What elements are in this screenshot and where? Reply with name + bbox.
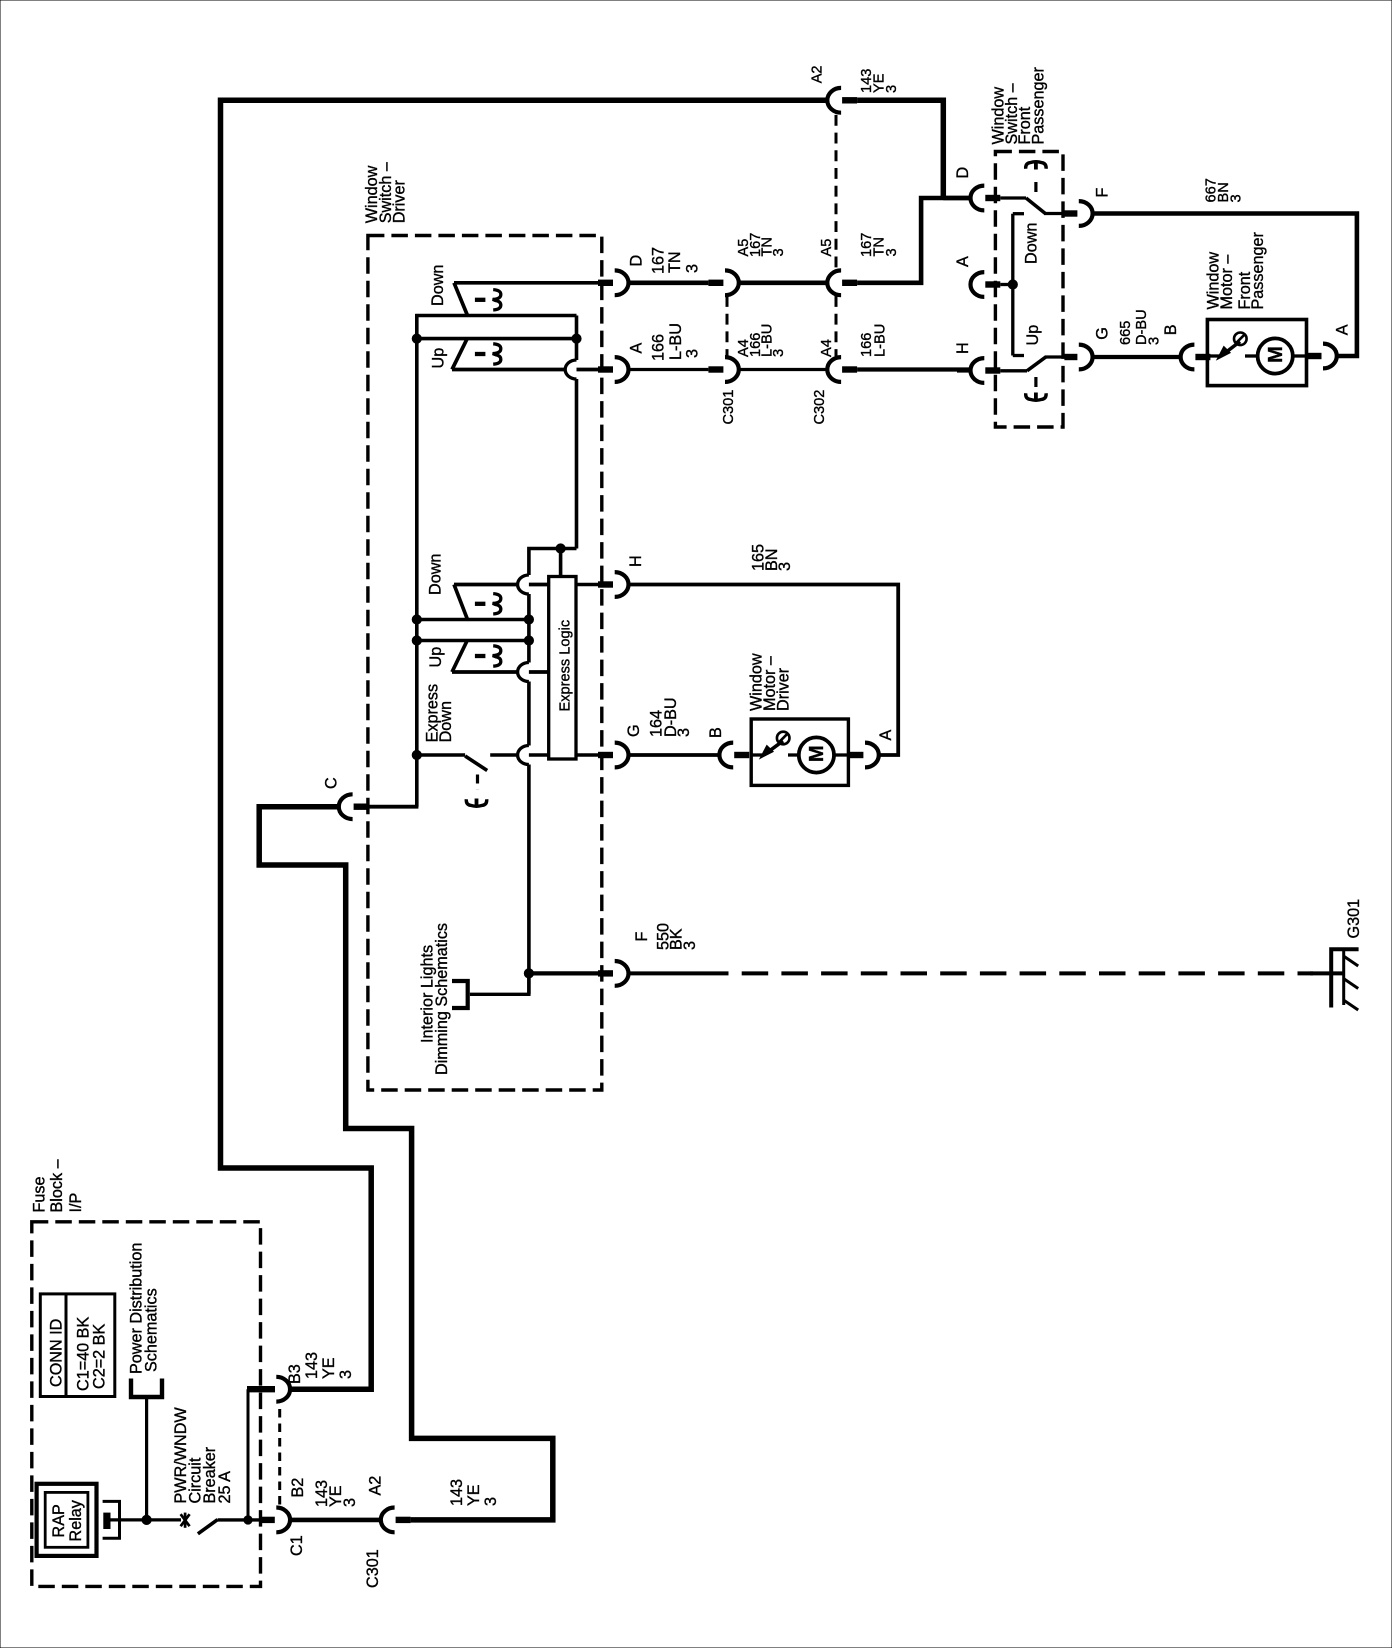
- svg-text:3: 3: [675, 728, 693, 737]
- junction dot B3 drop: [244, 1516, 252, 1524]
- connector H passenger: [970, 358, 984, 383]
- connector C302 pin A2 top: [827, 88, 841, 113]
- svg-text:Relay: Relay: [67, 1499, 85, 1541]
- svg-text:Driver: Driver: [775, 667, 793, 711]
- junction dot F branch: [524, 969, 533, 978]
- svg-text:Passenger: Passenger: [1249, 232, 1267, 310]
- connector C301 pin A5: [708, 280, 723, 286]
- svg-text:3: 3: [681, 941, 699, 950]
- driver paddle hook 2: [493, 344, 501, 364]
- svg-text:3: 3: [1229, 194, 1245, 202]
- window switch front passenger dashed box: [995, 152, 1063, 428]
- wire hop to A connector: [577, 368, 599, 372]
- wire 166 L-BU C301 to C302: [739, 368, 828, 371]
- svg-text:3: 3: [771, 349, 787, 357]
- express down blade: [465, 756, 487, 771]
- wire 550 BK dashed to ground: [702, 971, 1313, 975]
- svg-text:RAP: RAP: [50, 1504, 68, 1537]
- connector C1 pin B2 stub: [260, 1517, 275, 1523]
- svg-text:Up: Up: [430, 348, 448, 369]
- power distribution bracket: [131, 1379, 162, 1398]
- svg-text:G: G: [1094, 327, 1112, 340]
- svg-text:3: 3: [884, 248, 900, 256]
- connector C301 C302 dashed links: [726, 296, 729, 356]
- svg-text:A: A: [877, 730, 895, 741]
- svg-text:143: 143: [448, 1479, 466, 1506]
- wire express down feed: [417, 753, 465, 757]
- svg-text:A: A: [954, 256, 972, 267]
- express logic top pin: [559, 549, 563, 577]
- svg-text:YE: YE: [320, 1357, 338, 1379]
- svg-text:M: M: [1265, 346, 1287, 363]
- motor passenger wire mid: [1245, 354, 1258, 357]
- right rail upper: [575, 339, 579, 360]
- svg-text:H: H: [954, 342, 972, 354]
- wire 167 TN C302 to D wire: [857, 198, 970, 283]
- svg-text:Up: Up: [1024, 325, 1042, 346]
- passenger link bottom hook: [1026, 393, 1046, 400]
- passenger H blade: [1000, 369, 1027, 372]
- svg-text:A2: A2: [367, 1476, 385, 1496]
- junction dots common: [524, 615, 533, 624]
- junction dot express down: [412, 750, 421, 759]
- svg-text:B: B: [1162, 324, 1180, 335]
- svg-text:Passenger: Passenger: [1030, 67, 1048, 145]
- svg-text:143: 143: [303, 1352, 321, 1379]
- motor driver wire mid: [788, 753, 799, 756]
- svg-text:A2: A2: [810, 65, 826, 83]
- wire D feed: [943, 196, 970, 200]
- svg-text:B: B: [707, 727, 725, 738]
- connector A passenger: [970, 272, 984, 297]
- passenger link dash top: [1034, 182, 1037, 192]
- common rail seg2: [527, 594, 531, 663]
- wire 166 L-BU C302 to H: [857, 367, 970, 371]
- junction dots 338: [412, 334, 421, 343]
- svg-text:Driver: Driver: [391, 180, 409, 224]
- svg-text:25 A: 25 A: [216, 1471, 234, 1504]
- svg-text:B3: B3: [286, 1364, 304, 1384]
- svg-text:Fuse: Fuse: [31, 1177, 49, 1213]
- driver down switch paddle: [454, 281, 599, 285]
- svg-text:Schematics: Schematics: [143, 1288, 161, 1372]
- connector F driver: [598, 970, 613, 976]
- window motor front passenger box: [1207, 320, 1306, 386]
- connector B passenger motor: [1181, 345, 1195, 370]
- express logic box: [549, 577, 576, 760]
- svg-text:C1: C1: [288, 1535, 306, 1556]
- junction dot A passenger: [1008, 280, 1017, 289]
- passenger link top hook: [1026, 162, 1046, 169]
- wire 665 D-BU G to motor B: [1093, 355, 1181, 359]
- connector C302 pin A4: [827, 357, 841, 382]
- svg-text:3: 3: [684, 349, 702, 358]
- svg-text:3: 3: [776, 562, 794, 571]
- passenger A contact bar: [1000, 283, 1013, 286]
- driver paddle link dash 2: [475, 352, 486, 356]
- svg-text:A5: A5: [819, 239, 835, 257]
- svg-text:M: M: [806, 745, 828, 762]
- svg-text:F: F: [1094, 188, 1112, 198]
- motor passenger thermal circle: [1234, 333, 1247, 346]
- wire breaker to C1 B2: [218, 1518, 261, 1521]
- svg-text:G301: G301: [1345, 899, 1363, 939]
- svg-text:3: 3: [337, 1370, 355, 1379]
- wire right rail to common: [529, 549, 577, 576]
- svg-text:665: 665: [1118, 321, 1134, 345]
- connector F passenger: [1064, 210, 1077, 216]
- connector G passenger: [1064, 354, 1077, 360]
- connector B driver motor: [719, 743, 733, 768]
- connector C driver switch: [339, 794, 353, 819]
- motor passenger wire right: [1293, 354, 1307, 357]
- svg-text:F: F: [633, 932, 651, 942]
- wire 667 BN F to motor A: [1093, 214, 1357, 357]
- driver paddle hook 4: [493, 646, 501, 666]
- connector G driver: [598, 752, 613, 758]
- driver switch left rail: [415, 314, 419, 807]
- passenger D blade: [1000, 196, 1026, 199]
- svg-text:D: D: [628, 255, 646, 267]
- driver up2 paddle: [452, 641, 467, 673]
- wire up2 top: [417, 639, 529, 643]
- interior dimming bracket: [452, 981, 468, 1008]
- express logic G pin: [576, 753, 599, 757]
- svg-text:Down: Down: [427, 554, 445, 595]
- wire down2 bottom: [417, 618, 529, 622]
- svg-text:Down: Down: [437, 701, 455, 742]
- svg-text:Express Logic: Express Logic: [558, 620, 574, 712]
- motor passenger blade: [1207, 354, 1220, 357]
- svg-text:L-BU: L-BU: [667, 323, 685, 360]
- connector D driver stub: [598, 280, 613, 286]
- svg-text:C: C: [323, 777, 341, 789]
- driver up switch paddle: [452, 339, 467, 370]
- wire 164 D-BU G to motor B: [629, 753, 720, 757]
- wire 143 YE B3 to top left corner: [221, 100, 828, 1389]
- svg-text:3: 3: [771, 248, 787, 256]
- wire up paddle output: [452, 368, 565, 372]
- wire bracket to relay wire: [145, 1397, 148, 1520]
- connector C1 pin B3 stub: [247, 1386, 275, 1392]
- wire B3 to B2 internal: [247, 1389, 250, 1520]
- svg-text:3: 3: [341, 1498, 359, 1507]
- hop common over down2: [518, 575, 529, 594]
- wire 143 YE A2 to passenger D: [857, 100, 943, 198]
- svg-text:Dimming Schematics: Dimming Schematics: [433, 923, 451, 1075]
- hop common over up2: [518, 663, 529, 682]
- relay pin bracket: [103, 1501, 120, 1538]
- svg-text:G: G: [625, 724, 643, 737]
- motor driver thermal circle: [777, 732, 790, 745]
- express down link dash: [476, 775, 479, 790]
- svg-text:C301: C301: [364, 1549, 382, 1588]
- circuit breaker asterisk: [181, 1514, 190, 1526]
- CONN ID table: [40, 1294, 115, 1397]
- svg-text:167: 167: [650, 247, 668, 274]
- motor driver M circle: [799, 737, 834, 772]
- driver paddle hook 1: [493, 290, 501, 310]
- svg-text:TN: TN: [666, 251, 684, 273]
- driver down2 paddle: [454, 583, 518, 587]
- wire 167 TN C301 to C302: [739, 280, 828, 285]
- express logic H pin: [576, 583, 599, 587]
- hop over right rail: [565, 360, 576, 379]
- junction dot down2 left: [412, 615, 421, 624]
- svg-text:H: H: [627, 555, 645, 567]
- motor driver blade: [751, 753, 763, 756]
- driver paddle link dash 4: [475, 654, 486, 658]
- wire 143 YE B2 to C301 A2: [290, 1518, 381, 1523]
- motor driver wire right: [834, 753, 848, 756]
- window switch driver dashed box: [368, 236, 602, 1091]
- svg-text:A: A: [628, 343, 646, 354]
- svg-text:Down: Down: [429, 265, 447, 306]
- fuse block I/P dashed box: [32, 1222, 261, 1587]
- connector H driver: [598, 581, 613, 587]
- svg-text:YE: YE: [465, 1484, 483, 1506]
- junction dot express top: [556, 544, 565, 553]
- relay RAP box: [37, 1484, 97, 1556]
- driver paddle link dash 1: [475, 298, 486, 302]
- wire down paddle bottom: [415, 314, 576, 318]
- wire 165 BN H to motor A: [629, 585, 899, 756]
- connector A passenger motor: [1307, 353, 1322, 359]
- svg-text:3: 3: [884, 85, 900, 93]
- junction dot up2 left: [412, 636, 421, 645]
- svg-text:B2: B2: [289, 1478, 307, 1498]
- express down hook: [466, 799, 486, 806]
- connector C301 pin A4: [708, 366, 723, 372]
- svg-text:L-BU: L-BU: [873, 324, 889, 357]
- wire 143 YE staircase to C: [259, 807, 553, 1520]
- wire F 550 BK: [529, 971, 599, 975]
- wire express down out: [490, 753, 518, 757]
- wire 167 TN D to C301: [629, 280, 709, 285]
- common rail seg4: [527, 765, 531, 995]
- svg-text:Down: Down: [1023, 223, 1041, 264]
- hop common over expressdown: [518, 746, 529, 765]
- right rail lower: [575, 379, 579, 549]
- connector C1 dashed link: [278, 1409, 281, 1507]
- common rail seg3: [527, 682, 531, 746]
- motor passenger M circle: [1258, 338, 1293, 373]
- ground G301 symbol: [1331, 949, 1358, 1007]
- wire common to dimming bracket: [470, 973, 529, 994]
- window motor driver box: [751, 719, 848, 785]
- svg-text:A4: A4: [819, 339, 835, 357]
- circuit breaker blade: [198, 1520, 218, 1534]
- driver paddle link dash 3: [475, 602, 486, 606]
- connector C302 pin A5: [827, 270, 841, 295]
- svg-text:C2=2 BK: C2=2 BK: [90, 1324, 108, 1389]
- connector C301 pin A2 bottom: [381, 1508, 395, 1533]
- svg-text:I/P: I/P: [67, 1193, 85, 1213]
- wire 166 L-BU A to C301: [629, 368, 709, 371]
- svg-text:166: 166: [650, 334, 668, 361]
- svg-text:3: 3: [684, 264, 702, 273]
- wire relay to breaker: [110, 1518, 181, 1521]
- svg-text:D: D: [954, 167, 972, 179]
- wire H feed: [957, 368, 970, 372]
- wire 550 BK solid: [629, 971, 703, 975]
- svg-text:C301: C301: [721, 390, 737, 425]
- wire rail tie 338: [417, 337, 577, 341]
- connector D passenger: [970, 186, 984, 211]
- junction dot relay wire: [142, 1515, 151, 1524]
- svg-text:Block –: Block –: [48, 1159, 66, 1212]
- svg-text:C302: C302: [812, 390, 828, 425]
- svg-text:Up: Up: [427, 647, 445, 668]
- svg-text:Motor –: Motor –: [1218, 255, 1236, 310]
- svg-text:3: 3: [1147, 337, 1163, 345]
- svg-text:CONN ID: CONN ID: [48, 1319, 66, 1387]
- driver paddle hook 3: [493, 594, 501, 614]
- svg-text:A: A: [1334, 324, 1352, 335]
- svg-text:3: 3: [482, 1497, 500, 1506]
- connector A driver stub: [598, 366, 613, 372]
- connector A driver motor: [848, 752, 863, 758]
- wire C to left rail: [369, 805, 419, 809]
- passenger link dash bottom: [1034, 377, 1037, 387]
